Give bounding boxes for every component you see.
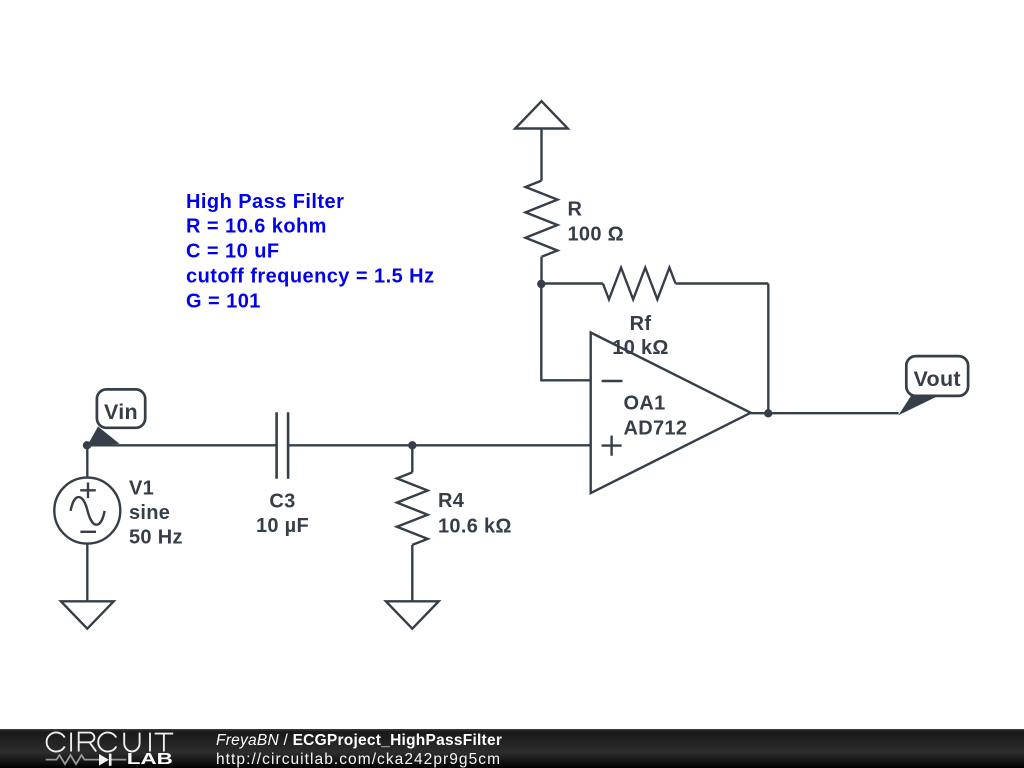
wire node A to resistor Rf <box>541 282 603 284</box>
svg-text:Vin: Vin <box>104 400 138 424</box>
wire R4 to ground <box>411 545 413 601</box>
logo resistor-diode squiggle <box>46 755 127 764</box>
voltage source V1 circle <box>54 478 120 544</box>
svg-text:sine: sine <box>129 502 170 524</box>
wire node A down to op-amp inverting input <box>541 284 590 380</box>
svg-text:High Pass Filter: High Pass Filter <box>186 191 344 213</box>
wire Vin node to source V1 <box>86 445 88 477</box>
footer bar <box>0 729 1024 768</box>
wire R4 node down to resistor R4 <box>411 445 413 472</box>
V1 sine wave <box>71 497 105 525</box>
Vout flag box <box>906 356 968 396</box>
resistor Rf <box>603 268 676 300</box>
svg-text:10 µF: 10 µF <box>256 515 309 537</box>
Vin flag tail <box>87 427 120 447</box>
op-amp non-inverting pin plus sign <box>602 436 622 456</box>
R4 node junction dot <box>408 441 416 449</box>
svg-text:Vout: Vout <box>914 367 961 391</box>
svg-text:100 Ω: 100 Ω <box>568 224 624 246</box>
wire corner down to output node <box>767 284 769 414</box>
ground symbol under V1 <box>61 601 114 628</box>
wire Vin node to capacitor C3 <box>87 444 277 446</box>
svg-text:Rf: Rf <box>630 313 652 335</box>
svg-text:http://circuitlab.com/cka242pr: http://circuitlab.com/cka242pr9g5cm <box>216 751 500 768</box>
wire R to node A <box>540 257 542 284</box>
logo diode <box>99 754 109 766</box>
wire Rf to corner <box>676 282 769 284</box>
resistor R4 <box>397 472 428 545</box>
logo CIRCUIT letters <box>47 732 174 751</box>
svg-text:OA1: OA1 <box>624 393 666 415</box>
node A junction dot <box>537 280 545 288</box>
svg-text:FreyaBN / ECGProject_HighPassF: FreyaBN / ECGProject_HighPassFilter <box>216 732 502 749</box>
output node junction dot <box>764 409 772 417</box>
ground symbol under R4 <box>386 601 439 628</box>
Vin flag box <box>97 389 145 427</box>
wire C3 to op-amp non-inverting input <box>288 444 591 446</box>
svg-text:LAB: LAB <box>127 751 173 768</box>
Vout flag tail <box>898 396 937 415</box>
svg-text:R4: R4 <box>438 490 465 512</box>
resistor R <box>526 181 558 257</box>
svg-text:10 kΩ: 10 kΩ <box>612 337 668 359</box>
op-amp inverting pin minus sign <box>602 380 623 382</box>
svg-text:AD712: AD712 <box>624 418 688 440</box>
V1 minus sign <box>80 531 96 533</box>
svg-text:10.6 kΩ: 10.6 kΩ <box>438 515 512 537</box>
Vin node junction dot <box>83 441 91 449</box>
svg-text:R = 10.6 kohm: R = 10.6 kohm <box>186 216 327 238</box>
wire op-amp output to Vout <box>751 412 899 414</box>
wire VCC to resistor R <box>540 129 542 181</box>
wire V1 to ground <box>86 544 88 602</box>
V1 plus sign <box>80 483 96 499</box>
svg-text:V1: V1 <box>129 477 154 499</box>
capacitor C3 plates <box>277 412 289 479</box>
power supply VCC symbol <box>515 101 568 128</box>
svg-text:C = 10 uF: C = 10 uF <box>186 241 280 263</box>
svg-text:R: R <box>568 198 583 220</box>
svg-text:50 Hz: 50 Hz <box>129 527 183 549</box>
svg-text:C3: C3 <box>269 491 295 513</box>
op-amp U1 OA1 triangle <box>591 333 751 494</box>
svg-text:G = 101: G = 101 <box>186 290 261 312</box>
svg-text:cutoff frequency = 1.5 Hz: cutoff frequency = 1.5 Hz <box>186 266 435 288</box>
